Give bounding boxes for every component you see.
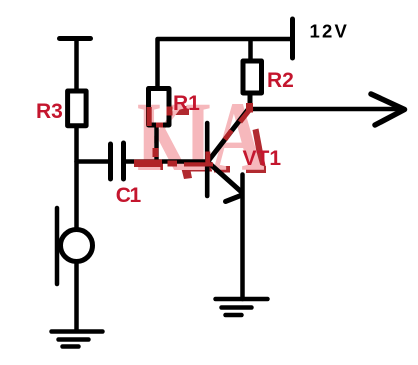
svg-text:12V: 12V — [310, 21, 350, 42]
svg-text:R1: R1 — [173, 92, 200, 115]
svg-text:A: A — [211, 81, 265, 192]
svg-text:R3: R3 — [36, 100, 63, 123]
svg-text:VT1: VT1 — [243, 147, 282, 170]
svg-text:C1: C1 — [116, 184, 142, 207]
svg-text:R2: R2 — [267, 69, 294, 92]
